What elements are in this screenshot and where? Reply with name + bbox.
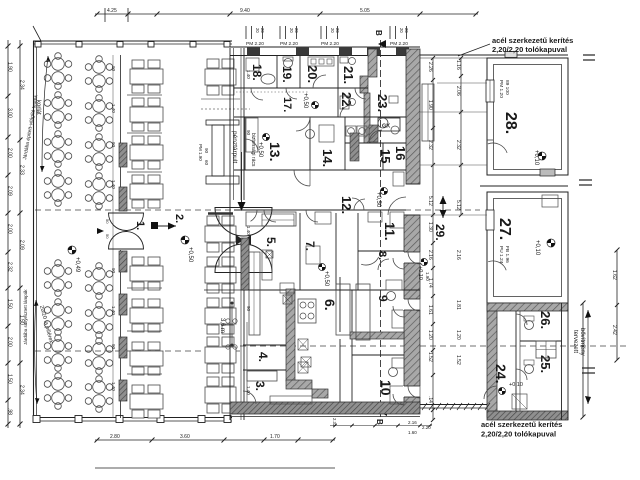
terrace round table group col2 row2 — [85, 95, 113, 132]
corridor shelving top — [422, 84, 434, 141]
svg-text:Járdába süllyesztett lámpák: Járdába süllyesztett lámpák — [23, 289, 28, 345]
svg-text:FB 1.96: FB 1.96 — [504, 246, 510, 263]
wall room 8 west x358 — [357, 213, 359, 290]
booth unit top 2 — [130, 98, 163, 131]
kitchen right wall x340 lower — [339, 277, 341, 332]
top dimension line — [95, 8, 479, 22]
kitchen island counter — [336, 284, 350, 335]
wall room 9 left x352 — [351, 290, 353, 402]
GK room box — [378, 118, 400, 131]
corridor 17 level +0,50 — [302, 93, 319, 109]
svg-text:1.60: 1.60 — [408, 430, 417, 435]
door arc room 13 to 12 — [294, 170, 310, 186]
room 6 level +0,50 — [319, 264, 330, 287]
svg-text:3.: 3. — [253, 381, 267, 391]
corridor level mark 2 — [417, 259, 430, 282]
svg-text:1.50: 1.50 — [7, 374, 13, 384]
room 28 door arc — [488, 143, 507, 153]
kitchen hatched wall step1 — [286, 380, 312, 389]
svg-text:89 100: 89 100 — [504, 80, 510, 95]
sink unit rooms 25-26 — [536, 341, 556, 358]
rooms 24-26 bottom hatched wall — [487, 411, 568, 420]
room 5 shelving dark pieces — [262, 250, 272, 280]
svg-text:10: 10 — [378, 380, 394, 396]
svg-text:9: 9 — [376, 295, 390, 302]
door arc room 13 left — [245, 139, 258, 152]
svg-text:20: 20 — [289, 28, 294, 33]
terrace round table group col2 row7 — [85, 338, 113, 375]
svg-text:15: 15 — [378, 149, 393, 163]
horizontal dashed axis upper — [35, 209, 480, 211]
room 10 fixtures — [389, 368, 398, 377]
svg-text:21.: 21. — [341, 66, 356, 84]
svg-text:+0,10: +0,10 — [533, 150, 539, 166]
svg-text:1.40: 1.40 — [111, 306, 116, 315]
svg-text:tervezett: tervezett — [572, 330, 578, 353]
svg-text:1.70: 1.70 — [270, 434, 280, 440]
kitchen small equipment squares — [283, 295, 292, 304]
room 21 fixtures — [340, 57, 348, 63]
svg-text:4.25: 4.25 — [107, 8, 117, 14]
svg-text:90: 90 — [111, 142, 116, 148]
svg-text:22.: 22. — [339, 92, 354, 110]
svg-text:1.61: 1.61 — [427, 305, 433, 315]
square table group 6 — [205, 377, 236, 413]
svg-text:2.26: 2.26 — [427, 62, 433, 72]
square table column dimension numbers — [246, 70, 251, 395]
svg-text:29.: 29. — [433, 224, 447, 241]
terrace round table group col2 row1 — [85, 56, 113, 93]
room 27 level +0,10 — [534, 239, 555, 256]
svg-text:3.60: 3.60 — [180, 434, 190, 440]
svg-text:5.05: 5.05 — [360, 8, 370, 14]
svg-text:.14: .14 — [427, 396, 433, 403]
hatched wall between room 20-23 block — [368, 49, 377, 77]
svg-text:60: 60 — [204, 160, 209, 166]
wall room 14-15 x345 — [344, 117, 346, 170]
room 24 shower — [512, 394, 527, 409]
wall room 5-7 divide x300 — [299, 213, 301, 290]
room 11 fixtures — [390, 212, 404, 228]
wall room 13 left x245 — [244, 117, 246, 170]
ramp arrows corridor — [442, 196, 444, 218]
svg-text:2.00: 2.00 — [7, 148, 13, 158]
svg-text:20: 20 — [335, 28, 340, 33]
svg-text:18.: 18. — [250, 64, 264, 81]
svg-text:3,6 m: 3,6 m — [219, 318, 225, 333]
terrace top edge with posts — [33, 26, 232, 47]
svg-text:+0,50: +0,50 — [187, 247, 193, 263]
right outer dimension line — [611, 248, 620, 363]
svg-text:1.40: 1.40 — [111, 382, 116, 391]
kitchen left counters — [249, 252, 260, 335]
entrance guide arrow — [241, 152, 243, 204]
room 2 level mark and +0,50 — [181, 236, 189, 244]
svg-text:2.34: 2.34 — [19, 80, 25, 90]
terrace round table group col1 row6 — [44, 299, 72, 336]
wall rooms 18-21 bottom y88 — [234, 87, 368, 89]
booth gap double swing door lower — [109, 232, 144, 249]
door arc room 21 — [355, 88, 366, 99]
square table group 5 — [205, 337, 236, 373]
svg-text:1.40: 1.40 — [246, 70, 251, 79]
svg-text:PM 2.20: PM 2.20 — [321, 41, 339, 47]
bottom dimension line — [95, 438, 336, 443]
left dimension line outer — [6, 40, 11, 428]
corridor crossing line y83 — [437, 82, 487, 84]
svg-text:+0,50: +0,50 — [375, 192, 381, 208]
svg-text:2.00: 2.00 — [7, 224, 13, 234]
svg-text:1.90: 1.90 — [425, 272, 430, 281]
svg-text:2.42: 2.42 — [611, 325, 617, 335]
terrace bottom edge with posts — [33, 416, 232, 423]
svg-text:12.: 12. — [339, 196, 354, 214]
booth hatched pier bottom 2 — [119, 294, 127, 315]
vestibule door leaves — [236, 235, 244, 245]
door arc room 20 — [313, 75, 326, 88]
svg-text:26.: 26. — [538, 311, 553, 329]
room 27 door arc — [488, 261, 506, 270]
svg-text:90: 90 — [204, 148, 209, 154]
east wall door opening 2 — [403, 299, 421, 310]
terrace round table group col2 row4 — [85, 173, 113, 210]
square table group 1 — [205, 59, 236, 95]
svg-text:2.34: 2.34 — [19, 385, 25, 395]
door arc room 23 — [369, 130, 382, 143]
wall corridor 12 bottom y210 — [234, 209, 406, 211]
terrace round table group col2 row6 — [85, 302, 113, 339]
terrace handrail arrow top-left — [42, 56, 48, 172]
svg-text:acél szerkezetű kerítés: acél szerkezetű kerítés — [492, 36, 573, 45]
room 12 radiator — [393, 172, 404, 186]
svg-text:2.09: 2.09 — [7, 186, 13, 196]
svg-text:1.20: 1.20 — [427, 330, 433, 340]
bottom outer line — [95, 467, 335, 469]
terrace right wall — [243, 48, 245, 200]
svg-text:3.00: 3.00 — [7, 108, 13, 118]
svg-text:4.: 4. — [256, 352, 270, 362]
room 9 fixtures — [387, 292, 396, 301]
corridor dimension numbers column b — [455, 60, 461, 365]
wall fixtures row y143 — [345, 142, 406, 144]
east wall door opening 1 — [403, 252, 421, 263]
section marker B bottom — [375, 408, 387, 425]
terrace round table group col2 row8 — [85, 376, 113, 413]
booth unit bottom 1 — [130, 257, 163, 290]
svg-text:5.: 5. — [264, 237, 278, 247]
terrace round table group col1 row1 — [44, 53, 72, 90]
cash desk penztarpult — [201, 99, 250, 184]
room 28 inner walls — [494, 65, 562, 170]
svg-text:1.81: 1.81 — [455, 300, 461, 310]
corridor dimension numbers column a — [427, 62, 433, 403]
svg-text:2,20/2,20 tolókapuval: 2,20/2,20 tolókapuval — [481, 430, 556, 439]
room 7 table — [306, 246, 320, 264]
svg-text:.98: .98 — [7, 408, 13, 415]
svg-text:90: 90 — [111, 66, 116, 72]
3.6 m dimension in room 2 — [219, 302, 237, 350]
room 5 X-square small — [266, 251, 273, 258]
door arc main wall opening — [388, 197, 406, 215]
booth hatched pier top 2 — [119, 187, 127, 211]
booth unit top 3 — [130, 136, 163, 169]
svg-text:1.40: 1.40 — [246, 386, 251, 395]
square table platform line y290 — [204, 289, 242, 291]
corridor crossing line y215 — [420, 214, 487, 216]
bottom dimension numbers — [110, 434, 280, 440]
wall room 11-8 divider y251 — [358, 250, 404, 252]
entrance vestibule lower half-disc — [215, 244, 272, 273]
svg-text:1.30: 1.30 — [427, 222, 433, 232]
terrace round table group col1 row5 — [44, 260, 72, 297]
corridor crossing line y165 — [420, 164, 487, 166]
svg-text:1.20: 1.20 — [455, 330, 461, 340]
svg-text:2.80: 2.80 — [110, 434, 120, 440]
svg-text:9.40: 9.40 — [240, 8, 250, 14]
room 25-26 divide wall y341 — [520, 340, 562, 342]
svg-text:1.52: 1.52 — [427, 352, 433, 362]
booth hatched pier bottom 3 — [119, 337, 127, 358]
booth column wall line — [120, 55, 122, 208]
svg-text:2.16: 2.16 — [455, 250, 461, 260]
booth unit top 4 — [130, 175, 163, 208]
svg-text:2.33: 2.33 — [19, 165, 25, 175]
room 13 counter — [246, 118, 258, 152]
svg-text:90: 90 — [111, 344, 116, 350]
room 3 door arc — [243, 391, 256, 404]
terrace round table group col1 row3 — [44, 131, 72, 168]
square table group 4 — [205, 298, 236, 334]
booth unit bottom 2 — [130, 299, 163, 332]
kitchen hatched wall step2 — [312, 389, 328, 398]
bottom right small dims — [408, 420, 431, 435]
wall rooms 13-16 bottom y170 — [234, 169, 406, 171]
svg-text:20: 20 — [294, 28, 299, 33]
svg-text:2.32: 2.32 — [455, 140, 461, 150]
fence segment between 28 and 27 — [480, 185, 568, 187]
main hatched wall east side upper — [406, 49, 420, 184]
svg-text:biztonsági rács: biztonsági rács — [250, 133, 256, 167]
wall room 18 right x277 — [276, 56, 278, 88]
room 11 door arc — [378, 259, 389, 270]
room 12 door arc north — [354, 199, 365, 210]
terrace left wall — [34, 41, 37, 419]
tervezett bovitmeny dimension line — [581, 301, 592, 420]
wall room 13-14 x310 — [309, 117, 311, 170]
svg-text:20: 20 — [255, 28, 260, 33]
svg-text:1.40: 1.40 — [111, 104, 116, 113]
svg-text:5.12: 5.12 — [455, 200, 461, 210]
kitchen bottom counter — [270, 396, 312, 404]
svg-text:2.09: 2.09 — [19, 240, 25, 250]
room 20 table with chairs — [308, 57, 334, 66]
svg-text:50: 50 — [105, 219, 110, 224]
wall stub below vestibule — [208, 212, 233, 215]
svg-text:2.33: 2.33 — [332, 418, 337, 427]
door arc room 10 east — [393, 394, 404, 405]
room 24-25 divide wall x516 — [515, 311, 517, 411]
svg-text:20: 20 — [330, 28, 335, 33]
svg-text:2.00: 2.00 — [7, 337, 13, 347]
svg-text:20: 20 — [260, 28, 265, 33]
door arc room 8 east — [393, 258, 404, 269]
svg-text:bővítmény: bővítmény — [579, 328, 585, 356]
door arc room 9 east — [393, 306, 404, 317]
equals mark middle right — [579, 179, 592, 181]
booth hatched pier bottom 1 — [119, 251, 127, 272]
svg-text:2.16: 2.16 — [427, 250, 433, 260]
svg-text:PM 1.20: PM 1.20 — [498, 80, 504, 98]
svg-text:1.50: 1.50 — [7, 299, 13, 309]
bottom hatched wall center block — [230, 402, 420, 414]
corridor 17 dotted guide — [236, 91, 308, 93]
room 5 beds — [262, 214, 294, 226]
booth gap double swing door upper — [109, 213, 144, 231]
room 1 label and arrow — [134, 221, 176, 230]
svg-text:20: 20 — [399, 28, 404, 33]
room 19 toilet — [284, 59, 293, 68]
room 28 window left — [486, 80, 494, 102]
svg-text:acél szerkezetű kerítés: acél szerkezetű kerítés — [481, 420, 562, 429]
svg-text:1.40: 1.40 — [111, 180, 116, 189]
wall room 10 y355 — [352, 354, 404, 356]
section line B-B dashed — [380, 40, 382, 420]
svg-text:16: 16 — [393, 146, 408, 160]
booth unit top 1 — [130, 60, 163, 93]
svg-text:27.: 27. — [496, 218, 513, 240]
square table group 3 — [205, 257, 236, 293]
terrace round table group col1 row4 — [44, 170, 72, 207]
bottom small dim ticks row — [330, 418, 432, 427]
fence text top leader — [458, 44, 490, 56]
east wall door opening 3 — [403, 386, 421, 397]
main hatched wall east side lower — [404, 215, 420, 405]
center block top wall — [230, 47, 420, 56]
hatched wall segment room 23 left — [360, 76, 368, 93]
corridor dimension line a — [431, 56, 435, 422]
svg-text:pénztárpult: pénztárpult — [231, 131, 238, 163]
wall corridor 17 bottom y117 — [234, 116, 406, 118]
horizontal dashed axis lower — [35, 350, 240, 352]
bottom wall lower edge line — [230, 416, 420, 418]
room 28 bottom window rect — [540, 169, 555, 176]
svg-text:+0,50: +0,50 — [302, 93, 308, 109]
svg-text:1.90: 1.90 — [7, 62, 13, 72]
svg-text:19.: 19. — [280, 66, 294, 83]
svg-text:1.16: 1.16 — [455, 60, 461, 70]
room 14 shower and wc — [319, 125, 334, 142]
room 13 level +0,50 — [257, 134, 270, 158]
svg-text:2.16: 2.16 — [408, 420, 417, 425]
square table group 2 — [205, 216, 236, 252]
top dimension numbers — [107, 8, 370, 14]
room 27 window left — [486, 210, 494, 230]
svg-text:1.40: 1.40 — [246, 226, 251, 235]
booth unit bottom 4 — [130, 385, 163, 418]
door arc room 7 — [306, 210, 318, 222]
corridor level +0,10 — [375, 188, 388, 208]
fence line top right — [420, 54, 568, 56]
equals mark top right — [583, 54, 595, 56]
svg-text:+0,10: +0,10 — [509, 382, 523, 388]
door arc room 12 to 17 — [296, 117, 310, 131]
corridor dimension line b — [459, 56, 463, 217]
room 7 fixture — [315, 212, 331, 224]
room 24 level +0,10 — [499, 382, 523, 395]
booth unit bottom 3 — [130, 342, 163, 375]
room 25 door arc — [516, 369, 527, 380]
booth column dimension ticks line — [112, 55, 114, 418]
svg-text:24.: 24. — [493, 364, 509, 383]
svg-text:PU 1.24: PU 1.24 — [498, 246, 504, 264]
svg-text:2.32: 2.32 — [7, 262, 13, 272]
corridor crossing line y112 — [420, 111, 487, 113]
equals mark lower right — [582, 367, 595, 369]
fa pillerek arrow bottom-left — [35, 300, 37, 404]
svg-text:PM 2.20: PM 2.20 — [390, 41, 408, 47]
room 27 inner walls — [494, 199, 562, 297]
svg-text:14.: 14. — [320, 149, 335, 167]
room 23 fixtures toilets — [378, 118, 388, 128]
svg-text:PM 1.90: PM 1.90 — [198, 144, 203, 161]
booth hatched pier top 1 — [119, 143, 127, 167]
booth divider shelves bottom — [127, 287, 162, 289]
svg-text:2.32: 2.32 — [427, 140, 433, 150]
rooms 24-26 right wall — [561, 303, 563, 420]
kitchen stove 4 rings — [298, 299, 316, 323]
rooms 24-26 top hatched wall — [487, 303, 568, 311]
kitchen hatched wall x286 — [286, 289, 295, 381]
booth gap entry arrow — [97, 228, 104, 234]
svg-text:2.06: 2.06 — [455, 86, 461, 96]
door arc room 5 — [264, 210, 276, 222]
svg-text:+0,10: +0,10 — [534, 240, 540, 256]
room 28 level +0,10 — [533, 150, 546, 166]
booth column dimension numbers — [111, 66, 116, 391]
section marker B top — [374, 30, 386, 48]
hatched wall y335 room 9-10 — [350, 332, 404, 339]
door arc room 12 west — [251, 210, 258, 221]
wall room 20 right x338 — [337, 56, 339, 117]
svg-text:90: 90 — [246, 306, 251, 312]
svg-text:20: 20 — [404, 28, 409, 33]
svg-text:90: 90 — [111, 268, 116, 274]
entrance vestibule upper half-disc — [215, 208, 272, 237]
svg-text:17.: 17. — [281, 97, 293, 112]
svg-text:PM 2.20: PM 2.20 — [280, 41, 298, 47]
svg-text:28.: 28. — [502, 112, 519, 134]
svg-text:1.52: 1.52 — [455, 355, 461, 365]
svg-text:2,20/2,20 tolókapuval: 2,20/2,20 tolókapuval — [492, 45, 567, 54]
door arc room 22 — [340, 105, 352, 117]
washing machines room 15-16 — [346, 126, 356, 136]
room 3 desk — [247, 371, 277, 381]
svg-text:5.12: 5.12 — [427, 196, 433, 206]
terrace round table group col1 row7 — [44, 335, 72, 372]
booth divider shelves top — [127, 94, 162, 96]
hatched wall segment room 22-23 divide — [364, 93, 370, 143]
svg-text:1.62: 1.62 — [611, 270, 617, 280]
wall room 7-11 divide x336 — [335, 213, 337, 290]
terrace round table group col2 row3 — [85, 134, 113, 171]
booth hatched pier bottom 4 — [119, 380, 127, 401]
room 6 table rects — [280, 283, 294, 293]
wall room 15-16 x383 — [382, 143, 384, 170]
top window dimension marks PM 2.20 — [246, 26, 409, 47]
svg-text:+0,10: +0,10 — [417, 266, 423, 280]
door arc room 8 from 11 — [361, 257, 379, 265]
room 4 top wall y345 — [243, 344, 286, 346]
